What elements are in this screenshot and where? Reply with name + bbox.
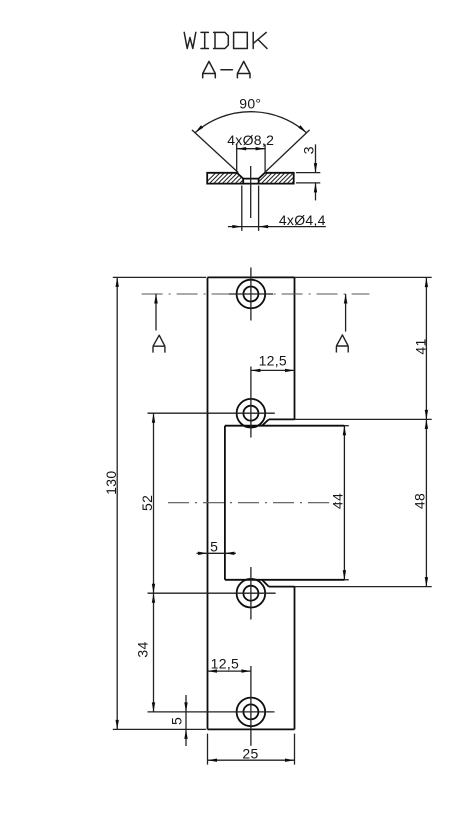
cutting line A-A [142, 293, 370, 295]
svg-text:41: 41 [413, 338, 429, 354]
dimension 4xO8,2 [236, 144, 238, 172]
box right edge [343, 426, 345, 580]
dimension 48 [295, 418, 432, 420]
hole H1 centerlines [229, 293, 273, 295]
svg-text:12,5: 12,5 [211, 656, 239, 672]
hatch right [256, 172, 308, 185]
hole H4 [237, 698, 266, 727]
svg-text:4xØ8,2: 4xØ8,2 [227, 132, 274, 148]
hole H3 [237, 579, 266, 608]
svg-text:44: 44 [330, 493, 346, 509]
plate top edge [208, 276, 295, 278]
dimension 5 bottom [185, 695, 187, 746]
svg-text:34: 34 [134, 641, 150, 657]
svg-text:3: 3 [300, 146, 316, 154]
dimension 130 [113, 276, 206, 278]
step bottom edge [269, 586, 295, 588]
title WIDOK [184, 32, 267, 48]
hole H2 centerlines [148, 412, 275, 414]
box centerline [168, 502, 336, 504]
dimension 25 [207, 734, 209, 765]
dimension 4xO4,4 [241, 186, 243, 231]
svg-text:130: 130 [103, 471, 119, 495]
dimension 12,5 top [251, 369, 295, 371]
dimension 44 [343, 426, 346, 436]
svg-text:90°: 90° [239, 96, 261, 112]
countersink hole walls [242, 179, 244, 184]
svg-text:5: 5 [169, 717, 185, 725]
section marker A left [155, 294, 157, 331]
box bottom edge [225, 579, 345, 581]
box top edge [225, 425, 345, 427]
dimension 12,5 bottom [208, 670, 251, 672]
svg-text:25: 25 [242, 746, 258, 762]
dimension 34 [153, 593, 155, 712]
90 degree arc [195, 112, 307, 133]
svg-text:12,5: 12,5 [259, 353, 287, 369]
plate right edge upper [294, 277, 296, 419]
section marker A right [345, 294, 347, 332]
section centerline [250, 166, 252, 218]
svg-text:5: 5 [210, 539, 218, 555]
hole H3 centerlines [148, 592, 276, 594]
hole H1 [237, 280, 266, 309]
svg-text:4xØ4,4: 4xØ4,4 [279, 212, 326, 228]
dimension 52 [153, 413, 155, 593]
hole H4 centerlines [148, 711, 275, 713]
box left edge [224, 426, 226, 580]
plate right edge lower [294, 587, 296, 730]
plate left edge [207, 277, 209, 729]
dimension 5 middle [197, 552, 208, 554]
title A-A [203, 61, 250, 77]
cone side lines [192, 130, 238, 173]
section plate outline [207, 173, 294, 184]
dimension 3 (thickness) [296, 172, 320, 174]
plate bottom edge [208, 728, 295, 730]
svg-text:48: 48 [412, 493, 428, 509]
dimension 41 [295, 276, 432, 278]
chamfer bottom [262, 580, 269, 587]
hole H2 [237, 399, 266, 428]
chamfer top [262, 419, 269, 425]
step top edge [269, 418, 295, 420]
svg-text:52: 52 [139, 495, 155, 511]
